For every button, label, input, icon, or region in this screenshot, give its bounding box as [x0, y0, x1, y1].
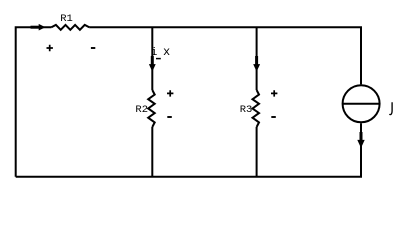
svg-text:x: x: [163, 45, 170, 59]
svg-text:R3: R3: [240, 104, 253, 116]
svg-text:R2: R2: [135, 104, 148, 116]
svg-text:R1: R1: [60, 13, 73, 25]
svg-text:i: i: [151, 47, 158, 59]
